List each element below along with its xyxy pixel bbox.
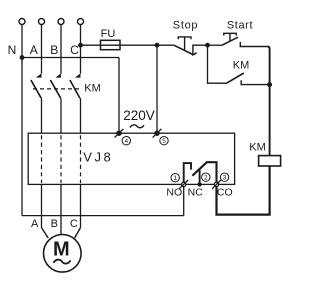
svg-text:220V: 220V xyxy=(123,108,155,123)
svg-text:B: B xyxy=(50,43,58,57)
svg-text:Start: Start xyxy=(227,20,253,32)
svg-text:KM: KM xyxy=(233,60,250,72)
svg-text:M: M xyxy=(53,238,70,260)
svg-text:KM: KM xyxy=(249,141,266,153)
svg-text:B: B xyxy=(51,218,58,230)
svg-text:C: C xyxy=(70,43,79,57)
svg-text:KM: KM xyxy=(84,83,101,95)
svg-text:4: 4 xyxy=(124,138,128,145)
svg-text:5: 5 xyxy=(162,138,166,145)
svg-text:NC: NC xyxy=(188,187,204,199)
svg-text:3: 3 xyxy=(223,175,227,182)
svg-text:A: A xyxy=(30,43,38,57)
svg-text:NO: NO xyxy=(166,187,182,199)
svg-text:VJ8: VJ8 xyxy=(83,150,113,165)
svg-text:FU: FU xyxy=(101,28,116,40)
svg-text:1: 1 xyxy=(173,175,177,182)
svg-text:N: N xyxy=(8,43,17,57)
svg-text:C: C xyxy=(70,218,78,230)
svg-text:Stop: Stop xyxy=(173,20,198,32)
svg-text:CO: CO xyxy=(217,187,233,199)
svg-text:2: 2 xyxy=(204,175,208,182)
svg-text:A: A xyxy=(31,218,39,230)
